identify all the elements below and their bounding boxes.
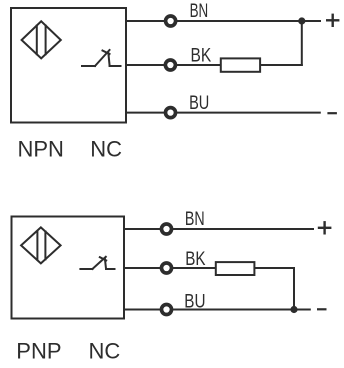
svg-text:NPN: NPN — [18, 137, 64, 162]
junction node dot (bottom) — [290, 306, 297, 313]
wire BK (top) — [126, 64, 302, 66]
svg-text:BN: BN — [185, 208, 205, 230]
proximity sensor diamond symbol (top) — [22, 21, 61, 58]
wire BN (bottom) — [124, 228, 313, 230]
NC switch contact (top) — [82, 50, 121, 66]
terminal circle BK (bottom) — [162, 263, 172, 273]
plus terminal (top) — [327, 15, 338, 26]
svg-text:NC: NC — [90, 137, 122, 162]
sensor body box (top, NPN) — [11, 8, 126, 123]
load resistor (top) — [221, 58, 260, 71]
terminal circle BU (bottom) — [162, 305, 172, 315]
wire from BK down to - rail (bottom) — [293, 268, 295, 310]
minus terminal (bottom) — [318, 308, 325, 310]
sensor body box (bottom, PNP) — [12, 217, 125, 319]
terminal circle BU (top) — [166, 108, 176, 118]
svg-text:BN: BN — [190, 0, 209, 22]
svg-text:PNP: PNP — [16, 339, 61, 364]
terminal circle BN (top) — [166, 16, 176, 26]
terminal circle BK (top) — [165, 60, 175, 70]
plus terminal (bottom) — [319, 222, 330, 233]
svg-text:NC: NC — [89, 339, 121, 364]
proximity sensor diamond symbol (bottom) — [21, 227, 61, 263]
junction node dot (top) — [298, 17, 305, 24]
svg-text:BK: BK — [185, 248, 205, 270]
svg-text:BK: BK — [191, 44, 212, 66]
svg-text:BU: BU — [184, 290, 205, 312]
svg-text:BU: BU — [189, 92, 209, 114]
NC switch contact (bottom) — [80, 257, 114, 269]
minus terminal (top) — [329, 112, 336, 114]
terminal circle BN (bottom) — [162, 224, 172, 234]
wire from BK up to + rail (top) — [301, 21, 303, 65]
wire BN (top) — [126, 20, 320, 22]
wire BK (bottom) — [124, 267, 294, 269]
wire BU (bottom) — [124, 309, 310, 311]
wire BU (top) — [126, 112, 320, 114]
load resistor (bottom) — [216, 262, 255, 275]
